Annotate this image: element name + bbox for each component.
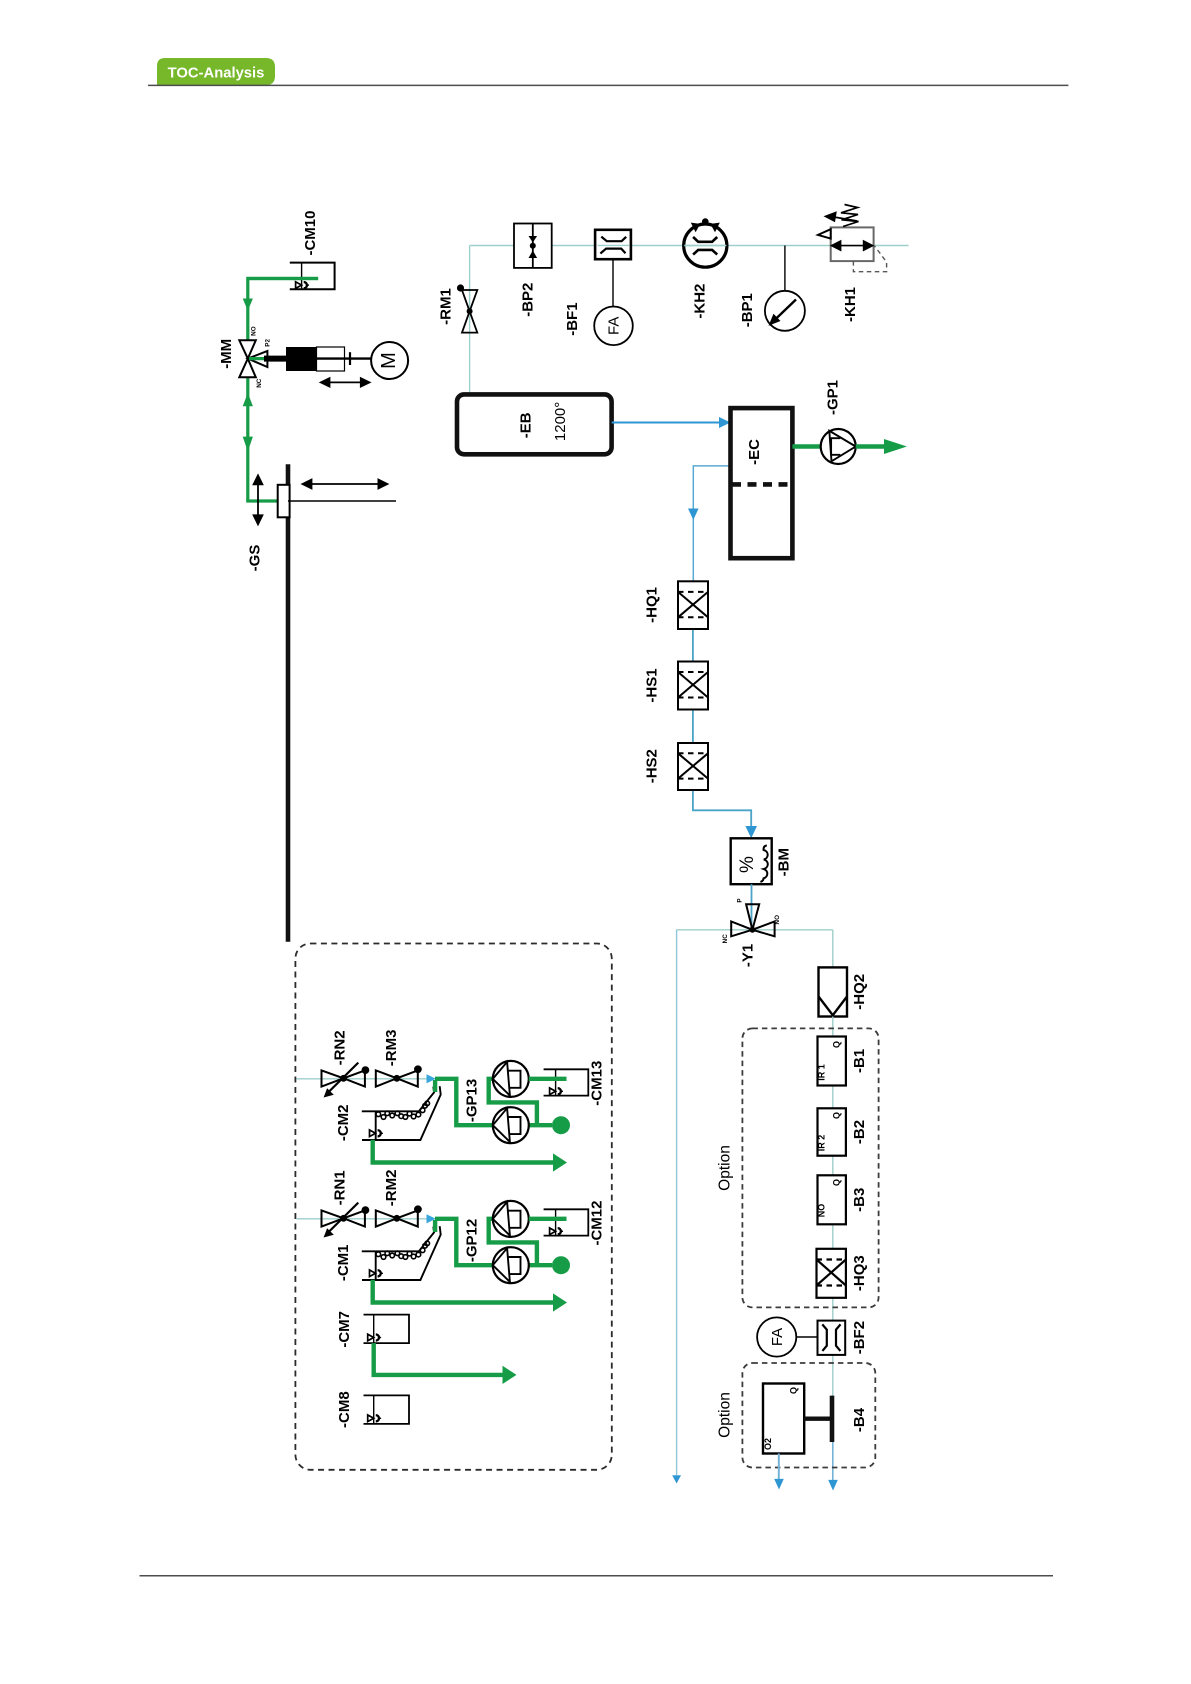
actuator travel arrow bbox=[321, 378, 370, 386]
detector B1 bbox=[818, 1037, 846, 1086]
wire teal main column bbox=[832, 1017, 834, 1441]
header rule bbox=[148, 84, 1068, 86]
svg-text:-RM3: -RM3 bbox=[383, 1030, 400, 1067]
svg-text:NC: NC bbox=[722, 934, 729, 944]
svg-text:O2: O2 bbox=[763, 1438, 773, 1450]
wire teal Y1 to HQ2 bbox=[832, 930, 834, 968]
check unit BP2 bbox=[514, 224, 552, 268]
svg-text:IR 2: IR 2 bbox=[817, 1135, 827, 1152]
filter HS1 bbox=[678, 662, 708, 710]
flow sensor BF1 bbox=[595, 230, 631, 259]
svg-text:FA: FA bbox=[769, 1328, 786, 1346]
svg-text:-GP13: -GP13 bbox=[463, 1079, 480, 1122]
svg-text:-B4: -B4 bbox=[851, 1407, 868, 1432]
svg-text:-RM1: -RM1 bbox=[437, 288, 454, 325]
wire HS1-HS2 bbox=[692, 710, 694, 744]
svg-text:-GP12: -GP12 bbox=[463, 1219, 480, 1262]
CM10 green pipe end overlay bbox=[247, 277, 319, 280]
GS vertical travel arrow bbox=[254, 475, 263, 524]
svg-text:NO: NO bbox=[817, 1204, 827, 1218]
svg-text:NO: NO bbox=[250, 326, 257, 336]
indicator FA2 bbox=[757, 1317, 796, 1356]
filter HS2 bbox=[678, 743, 708, 790]
svg-text:1200°: 1200° bbox=[552, 402, 569, 441]
svg-text:M: M bbox=[378, 352, 400, 369]
wire green CM7 drain arrow bbox=[374, 1343, 503, 1375]
svg-text:-Y1: -Y1 bbox=[739, 944, 756, 967]
svg-text:-EC: -EC bbox=[746, 439, 763, 465]
MM actuator stem bbox=[249, 357, 267, 360]
wire FA2 link bbox=[796, 1336, 817, 1338]
svg-text:-CM1: -CM1 bbox=[335, 1244, 352, 1281]
svg-text:-HS2: -HS2 bbox=[644, 749, 661, 783]
svg-text:%: % bbox=[737, 856, 758, 873]
vessel CM7 bbox=[364, 1315, 410, 1344]
svg-text:-BP1: -BP1 bbox=[739, 293, 756, 327]
svg-text:P2: P2 bbox=[265, 339, 272, 347]
svg-text:Option: Option bbox=[717, 1145, 734, 1191]
svg-text:NC: NC bbox=[256, 378, 263, 388]
wire green pipe valve->GS bbox=[246, 377, 249, 501]
svg-text:-KH1: -KH1 bbox=[842, 287, 859, 322]
svg-text:-BF1: -BF1 bbox=[564, 302, 581, 335]
svg-text:-CM10: -CM10 bbox=[302, 210, 319, 255]
svg-text:-CM7: -CM7 bbox=[336, 1311, 353, 1348]
svg-text:-BF2: -BF2 bbox=[851, 1321, 868, 1354]
valve RM1 bbox=[462, 290, 477, 333]
svg-text:IR 1: IR 1 bbox=[817, 1064, 827, 1081]
wire teal RM1 drop to EB bbox=[469, 246, 471, 395]
wire B4 drain bbox=[778, 1454, 780, 1480]
svg-text:-CM2: -CM2 bbox=[335, 1104, 352, 1141]
pump GP1 bbox=[821, 429, 856, 464]
valve MM 3-way bbox=[239, 340, 267, 377]
valve Y1 bbox=[731, 904, 774, 936]
svg-text:-RN1: -RN1 bbox=[331, 1170, 348, 1205]
svg-text:Q: Q bbox=[832, 1041, 842, 1048]
group CM2/RN2/RM3/GP13/CM13 bbox=[296, 1061, 588, 1172]
wire green pipe GS horizontal bbox=[246, 499, 280, 502]
detector B3 bbox=[818, 1175, 846, 1224]
svg-text:-CM12: -CM12 bbox=[589, 1200, 606, 1245]
MM actuator body bbox=[286, 347, 317, 371]
group CM1/RN1/RM2/GP12/CM12 bbox=[296, 1201, 588, 1312]
svg-text:-CM13: -CM13 bbox=[589, 1061, 606, 1106]
flow arrow down toward GS bbox=[243, 437, 253, 452]
svg-text:-GP1: -GP1 bbox=[825, 380, 842, 415]
vessel CM8 bbox=[364, 1395, 410, 1424]
KH1 spring and arrow bbox=[834, 205, 859, 227]
vessel CM10 bbox=[290, 263, 335, 290]
wire green pipe MM->CM10 elbow bbox=[248, 279, 318, 341]
svg-text:-KH2: -KH2 bbox=[691, 284, 708, 319]
svg-text:-HQ1: -HQ1 bbox=[644, 587, 661, 623]
svg-text:-EB: -EB bbox=[517, 412, 534, 438]
wire BF1 to FA bbox=[612, 259, 614, 306]
svg-text:-RN2: -RN2 bbox=[331, 1030, 348, 1065]
header badge TOC-Analysis bbox=[157, 58, 275, 85]
GS probe thick pipe bbox=[286, 464, 291, 941]
sensor B4 bbox=[763, 1384, 804, 1454]
svg-text:TOC-Analysis: TOC-Analysis bbox=[168, 66, 265, 82]
cooler EC bbox=[731, 408, 793, 558]
wire HQ1-HS1 bbox=[692, 629, 694, 662]
wire blue EC bypass loop bbox=[693, 466, 730, 581]
link to motor bbox=[317, 357, 373, 359]
flow arrow up toward MM bbox=[243, 393, 253, 406]
svg-text:FA: FA bbox=[606, 317, 623, 335]
svg-text:-B1: -B1 bbox=[851, 1049, 868, 1073]
motor M bbox=[371, 342, 408, 379]
wire HS2-BM bbox=[693, 790, 751, 833]
svg-text:-HQ3: -HQ3 bbox=[851, 1255, 868, 1291]
KH1 dashed feedback bbox=[853, 246, 886, 272]
hand valve KH2 bbox=[684, 224, 727, 267]
wire BP1 drop bbox=[784, 246, 786, 292]
svg-text:-B2: -B2 bbox=[851, 1120, 868, 1144]
flow arrow down into MM bbox=[243, 299, 253, 311]
svg-text:-B3: -B3 bbox=[851, 1188, 868, 1212]
B4 tee connector bbox=[804, 1416, 830, 1420]
svg-text:-GS: -GS bbox=[247, 545, 264, 572]
svg-text:-CM8: -CM8 bbox=[336, 1391, 353, 1428]
svg-text:-RM2: -RM2 bbox=[383, 1170, 400, 1207]
wire teal long drain left bbox=[676, 930, 678, 1475]
wire green EC to GP1 bbox=[792, 444, 821, 449]
wire teal top row bbox=[470, 245, 909, 247]
svg-text:-BP2: -BP2 bbox=[519, 283, 536, 317]
regulator KH1 bbox=[831, 227, 874, 261]
svg-text:-HQ2: -HQ2 bbox=[851, 974, 868, 1010]
wire teal Y1 row bbox=[677, 929, 833, 931]
filter HQ1 bbox=[678, 581, 708, 629]
GS thin duct line bbox=[288, 500, 396, 502]
indicator FA bbox=[594, 307, 633, 346]
GS horizontal travel arrow bbox=[303, 480, 388, 489]
svg-text:P: P bbox=[737, 898, 744, 902]
svg-text:-BM: -BM bbox=[776, 848, 793, 876]
wire blue EB to EC bbox=[612, 422, 725, 424]
GS probe holder bbox=[278, 485, 290, 518]
CM10 level mark bbox=[296, 282, 302, 289]
svg-text:-HS1: -HS1 bbox=[644, 668, 661, 702]
furnace EB bbox=[457, 394, 612, 454]
wire BM to Y1 bbox=[751, 884, 753, 930]
svg-text:Q: Q bbox=[832, 1179, 842, 1186]
svg-text:Option: Option bbox=[717, 1392, 734, 1438]
svg-text:-MM: -MM bbox=[218, 339, 235, 369]
green exhaust arrow GP1 bbox=[856, 444, 886, 449]
svg-text:NO: NO bbox=[774, 915, 781, 925]
KH1 vent triangle bbox=[818, 229, 831, 238]
detector B2 bbox=[818, 1108, 846, 1155]
footer rule bbox=[140, 1575, 1054, 1577]
filter HQ3 bbox=[817, 1249, 846, 1298]
svg-text:Q: Q bbox=[789, 1387, 799, 1394]
svg-text:Q: Q bbox=[832, 1112, 842, 1119]
gauge BP1 bbox=[765, 291, 805, 331]
